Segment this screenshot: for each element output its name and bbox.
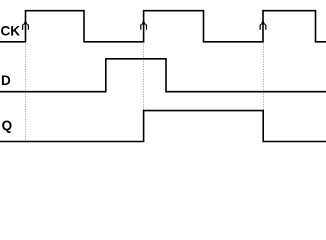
dotted sample line 3 at third rising edge bbox=[263, 44, 265, 110]
svg-text:Q: Q bbox=[2, 118, 13, 133]
dotted sample line 2 at second rising edge bbox=[143, 44, 145, 110]
CK waveform bbox=[0, 11, 326, 42]
dotted sample line 1 at first rising edge bbox=[25, 44, 27, 141]
Q waveform bbox=[0, 111, 326, 142]
svg-text:D: D bbox=[1, 73, 11, 88]
D waveform bbox=[0, 59, 326, 92]
rising-edge arrow 1 bbox=[23, 20, 29, 30]
rising-edge arrow 3 bbox=[260, 20, 266, 30]
rising-edge arrow 2 bbox=[141, 20, 147, 30]
svg-text:CK: CK bbox=[1, 23, 21, 38]
